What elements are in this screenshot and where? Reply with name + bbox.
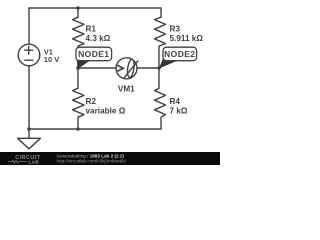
resistor R4 bbox=[155, 68, 166, 129]
wire bottom rail bbox=[29, 66, 161, 129]
svg-text:5.911 kΩ: 5.911 kΩ bbox=[170, 34, 204, 43]
wire top rail bbox=[29, 8, 161, 44]
logo waveform bbox=[8, 160, 27, 163]
resistor R2 bbox=[73, 68, 85, 129]
node junction dots bbox=[27, 6, 161, 131]
labels bbox=[44, 24, 204, 115]
voltmeter VM1 bbox=[116, 58, 137, 79]
junction bottom of R2 bbox=[76, 127, 80, 131]
svg-text:10 V: 10 V bbox=[44, 55, 59, 64]
svg-text:VM1: VM1 bbox=[118, 85, 135, 94]
wire node1 to voltmeter bbox=[78, 67, 116, 69]
resistor R1 bbox=[73, 8, 85, 68]
svg-text:LAB: LAB bbox=[29, 160, 40, 165]
svg-text:NODE2: NODE2 bbox=[164, 49, 195, 59]
svg-text:R1: R1 bbox=[86, 24, 97, 33]
svg-text:R3: R3 bbox=[170, 24, 181, 33]
junction bottom of V1 bbox=[27, 127, 31, 131]
svg-text:4.3 kΩ: 4.3 kΩ bbox=[86, 34, 111, 43]
flag NODE2 bbox=[159, 47, 197, 69]
svg-text:R2: R2 bbox=[86, 97, 97, 106]
svg-text:http://circuitlab.com/c3kj3mkw: http://circuitlab.com/c3kj3mkwz6k/ bbox=[57, 159, 127, 164]
svg-text:7 kΩ: 7 kΩ bbox=[170, 107, 188, 116]
svg-text:variable Ω: variable Ω bbox=[86, 107, 126, 116]
voltmeter arrow glyph bbox=[117, 65, 123, 71]
resistor R3 bbox=[155, 17, 166, 68]
ground bbox=[18, 129, 41, 149]
svg-text:NODE1: NODE1 bbox=[78, 49, 109, 59]
junction top of R1 bbox=[76, 6, 80, 10]
voltage source V1 bbox=[18, 44, 40, 66]
svg-text:R4: R4 bbox=[170, 97, 181, 106]
flag NODE1 bbox=[76, 47, 112, 69]
junction node B bbox=[157, 66, 161, 70]
watermark bar bbox=[0, 152, 220, 165]
wire voltmeter to node2 bbox=[137, 67, 159, 69]
junction node A bbox=[76, 66, 80, 70]
